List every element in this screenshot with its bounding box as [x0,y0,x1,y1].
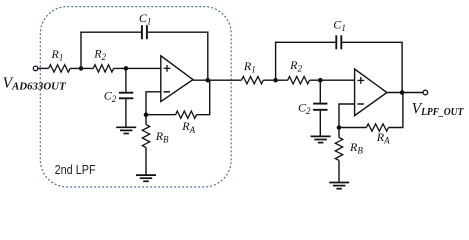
svg-text:R2: R2 [289,58,302,74]
wire C2 to ground stage 2 [319,111,321,137]
svg-text:C2: C2 [104,89,117,105]
junction output node stage 2 [400,90,405,95]
svg-text:RB: RB [349,140,363,156]
wire RA to output node stage 1 [197,80,210,115]
wire C1 rail left stage 2 [275,41,336,43]
wire R2 to op-amp noninverting input through node B [114,67,161,69]
wire feedback node to RB stage 2 [338,128,340,138]
resistor R2 stage 1 [93,65,113,72]
ground under C2 stage 2 [311,135,331,137]
junction feedback node stage 2 [337,125,342,130]
svg-text:RB: RB [155,129,169,145]
junction feedback node stage 1 [144,112,149,117]
wire op-amp output stage 2 to output terminal [387,92,423,94]
junction node A stage 1 [79,66,84,71]
junction node A stage 2 [273,78,278,83]
wire R2 to op-amp noninverting input stage 2 [310,79,355,81]
ground under RB stage 2 [329,182,349,184]
capacitor C1 stage 1 [141,25,143,39]
ground under C2 stage 1 [116,126,136,128]
output terminal V_LPF_OUT [423,90,428,95]
wire RB to ground stage 2 [338,160,340,182]
svg-text:R1: R1 [243,59,256,75]
wire C1 rail right [148,31,208,33]
ground under RB stage 1 [136,174,156,176]
dashed boundary box 2nd LPF [40,7,231,187]
svg-text:R1: R1 [51,47,64,63]
capacitor C1 stage 2 [335,35,337,49]
wire R1 to R2 through node A [70,67,93,69]
svg-text:2nd LPF: 2nd LPF [55,162,96,177]
svg-text:RA: RA [376,130,390,146]
resistor RA stage 1 [176,111,197,118]
svg-text:RA: RA [181,119,195,135]
wire feedback node to RB stage 1 [145,115,147,125]
wire node B down to C2 stage 1 [125,68,127,91]
wire inverting input stage 1 [146,92,161,115]
wire op-amp output stage 1 to stage 2 R1 [193,79,242,81]
resistor R1 stage 1 [49,65,71,72]
junction node B stage 2 [318,78,323,83]
wire C1 rail left [80,31,141,33]
wire R1 to R2 stage 2 [263,79,287,81]
wire node A up to C1 rail stage 2 [275,42,277,81]
svg-text:VAD633OUT: VAD633OUT [3,75,67,93]
svg-text:R2: R2 [93,46,106,62]
svg-text:C1: C1 [139,11,152,27]
op-amp U2 stage 2 [355,69,387,116]
wire RB to ground stage 1 [145,148,147,175]
capacitor C2 stage 2 [313,103,327,105]
wire input terminal to R1 [38,67,49,69]
wire feedback node to RA stage 2 [339,127,366,129]
svg-text:VLPF_OUT: VLPF_OUT [412,100,465,118]
wire C2 to ground stage 1 [125,99,127,127]
resistor RB stage 2 [335,138,342,161]
resistor RB stage 1 [142,125,149,148]
wire rail down to output node stage 1 [207,32,209,81]
input terminal V_AD633OUT [33,66,38,71]
resistor R2 stage 2 [288,77,310,84]
junction node B stage 1 [124,66,129,71]
wire node A up to C1 rail [80,32,82,69]
svg-text:C1: C1 [333,18,346,34]
resistor R1 stage 2 [242,77,264,84]
wire node B down to C2 stage 2 [319,80,321,103]
svg-text:C2: C2 [298,100,311,116]
wire C1 rail right stage 2 [342,41,402,43]
junction output node stage 1 [206,78,211,83]
capacitor C2 stage 1 [119,92,133,94]
wire feedback node to RA stage 1 [146,114,176,116]
wire rail down to output node stage 2 [401,42,403,93]
wire RA to output node stage 2 [389,93,403,128]
op-amp U1 stage 1 [161,56,193,102]
wire inverting input stage 2 [339,104,355,128]
resistor RA stage 2 [366,124,388,131]
